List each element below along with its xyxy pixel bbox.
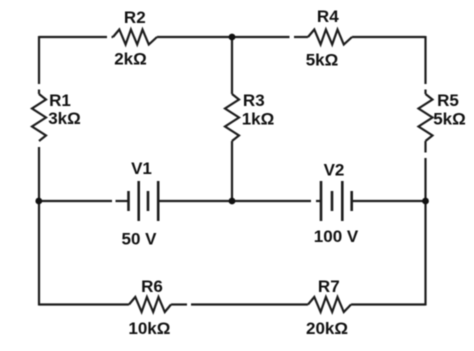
svg-text:R4: R4 <box>317 7 339 26</box>
svg-text:R3: R3 <box>243 91 265 110</box>
svg-text:10kΩ: 10kΩ <box>128 319 170 338</box>
svg-text:V1: V1 <box>131 159 152 178</box>
svg-text:5kΩ: 5kΩ <box>433 110 466 129</box>
svg-text:5kΩ: 5kΩ <box>306 51 339 70</box>
svg-text:R1: R1 <box>49 91 71 110</box>
svg-text:2kΩ: 2kΩ <box>114 50 147 69</box>
svg-text:50 V: 50 V <box>122 230 158 249</box>
svg-text:R7: R7 <box>318 277 340 296</box>
svg-text:100 V: 100 V <box>314 227 359 246</box>
svg-text:1kΩ: 1kΩ <box>242 110 275 129</box>
svg-text:R2: R2 <box>124 8 146 27</box>
svg-text:R6: R6 <box>141 277 163 296</box>
svg-text:20kΩ: 20kΩ <box>306 319 348 338</box>
svg-text:3kΩ: 3kΩ <box>48 109 81 128</box>
svg-text:V2: V2 <box>324 161 345 180</box>
svg-text:R5: R5 <box>437 91 459 110</box>
